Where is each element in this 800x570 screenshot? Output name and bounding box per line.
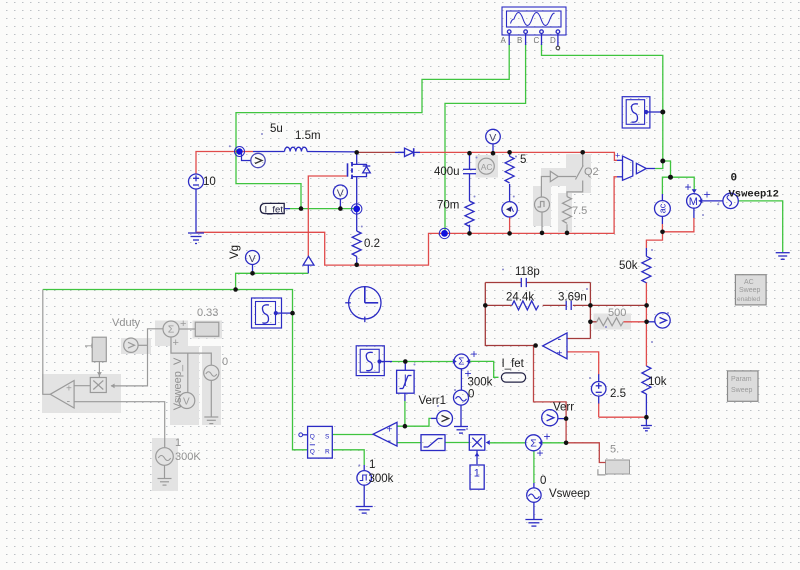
ground 0 source — [454, 427, 468, 434]
svg-text:10: 10 — [203, 176, 216, 188]
gray wire: summer1 bottom to 0 source — [171, 337, 211, 365]
wire: branch node to M multiplier — [671, 177, 695, 190]
gray Vsweep_V voltmeter — [179, 393, 195, 409]
svg-text:-: - — [388, 435, 392, 447]
wire: 50k bottom to 10k top — [645, 283, 647, 367]
svg-text:ac: ac — [657, 203, 667, 213]
wire: summer to X2 multiplier — [490, 442, 525, 444]
capacitor 400u — [463, 169, 476, 173]
gray wire: summer1 right to 0.33 box — [179, 328, 195, 330]
svg-text:3.69n: 3.69n — [558, 292, 587, 304]
wire: 10k bottom to ground — [645, 394, 647, 425]
resistor 24.4k — [512, 301, 539, 310]
disabled-area highlight patch (left analog model) — [42, 321, 222, 492]
svg-text:300k: 300k — [369, 473, 394, 485]
gate driver triangle — [303, 256, 314, 265]
wire: scope C to converter output node — [542, 44, 663, 161]
wire: limiter2 to comparator minus — [397, 442, 421, 444]
gray wire: 1 box to X multiplier — [98, 362, 100, 378]
clock source 1 300k — [357, 471, 372, 486]
svg-text:Verr: Verr — [553, 402, 574, 414]
svg-text:A: A — [501, 36, 507, 45]
svg-text:+: + — [471, 347, 478, 361]
svg-text:AC: AC — [744, 279, 754, 286]
wire: bottom return rail — [196, 177, 617, 265]
svg-text:Q2: Q2 — [584, 166, 599, 178]
gray wire: 300K source to ground — [164, 466, 166, 479]
svg-text:+: + — [615, 151, 620, 161]
resistor 50k — [642, 256, 651, 282]
svg-text:300k: 300k — [468, 377, 493, 389]
wire: gate wire driver to FET gate — [308, 176, 347, 257]
wire: scope3 stub — [278, 312, 293, 314]
wire: top rail source to current probe — [196, 152, 240, 175]
gray wire: triangle minus to 300K source — [74, 402, 165, 448]
disabled-area highlight patch (Q2 switch branch) — [533, 154, 591, 232]
I_fet tag 1 — [260, 203, 290, 215]
wire: Verr probe stub — [558, 418, 566, 420]
AC Sweep enabled box — [735, 275, 766, 305]
gray X multiplier — [90, 372, 114, 392]
wire: S-scope stub to node — [648, 111, 663, 113]
svg-text:Vsweep_V: Vsweep_V — [172, 357, 184, 410]
inductor 5u 1.5m — [285, 147, 308, 151]
wire: Vout voltmeter stem — [492, 144, 494, 153]
resistor 0.2 — [352, 231, 361, 257]
wire: gate drive net from flip-flop Q to driver — [43, 290, 308, 450]
wire: op-amp plus input to 2.5 source — [567, 352, 599, 375]
0 source (summer2) — [454, 390, 469, 405]
wire: compensation mid path 24.4k 3.69n — [485, 304, 512, 306]
converter trapezoid and triangle — [615, 151, 646, 181]
svg-text:V: V — [489, 132, 496, 144]
diode D1 — [398, 148, 420, 156]
svg-text:10k: 10k — [648, 376, 667, 388]
wire: 500 path — [590, 321, 596, 323]
svg-text:+: + — [173, 337, 179, 349]
summer3 — [526, 430, 551, 461]
svg-text:Σ: Σ — [168, 324, 175, 336]
svg-text:118p: 118p — [515, 266, 540, 278]
svg-text:Verr1: Verr1 — [419, 395, 447, 407]
wire: node jog to M branch node — [663, 161, 671, 177]
svg-text:R: R — [325, 448, 330, 455]
svg-text:300K: 300K — [175, 451, 201, 463]
source 2.5 — [591, 382, 606, 397]
gray 300K source — [156, 448, 174, 466]
scope 4-channel top — [502, 7, 566, 35]
resistor 5 — [505, 156, 514, 183]
svg-text:0.2: 0.2 — [364, 238, 380, 250]
gray wire: Q2 driver input — [541, 177, 550, 198]
gray 0 source — [204, 365, 219, 380]
X2 multiplier — [469, 435, 490, 451]
wire: summer2 net — [392, 361, 453, 363]
wire: flip-flop Q open stub — [303, 434, 308, 436]
wire: 400u cap leads — [469, 153, 471, 169]
wire: divider probe stub — [647, 321, 655, 323]
wire: Vds voltmeter stem — [339, 199, 341, 209]
wire: clock source bottom to ground — [363, 485, 365, 506]
wire: comparator output to flip-flop S — [332, 434, 373, 436]
svg-text:0: 0 — [222, 356, 228, 368]
svg-text:-: - — [558, 334, 562, 346]
svg-text:Vg: Vg — [229, 245, 241, 259]
wire: scope terminal stubs — [509, 33, 558, 46]
scope channel labels — [501, 36, 557, 45]
wire: wattmeter bottom stub — [509, 217, 511, 233]
svg-text:1.5m: 1.5m — [295, 130, 321, 142]
wire: 70m resistor bottom lead — [469, 225, 471, 234]
svg-text:0: 0 — [468, 389, 474, 401]
summer2 — [453, 347, 478, 381]
limiter2 — [421, 435, 445, 451]
svg-text:5: 5 — [520, 154, 526, 166]
wire: branch node to ac block — [662, 177, 670, 194]
gray wire: Q2 switch branch — [582, 152, 584, 166]
clock analysis icon — [345, 286, 381, 322]
svg-text:0: 0 — [540, 475, 546, 487]
wire: driver triangle input stub — [307, 265, 309, 273]
wire: inductor to FET drain node — [307, 151, 357, 153]
wire: 5 resistor leads — [509, 152, 511, 156]
I_fet tag 2 — [501, 373, 525, 382]
gray 1 box — [84, 337, 106, 361]
wire: divider top jog to 50k — [646, 232, 662, 248]
svg-text:50k: 50k — [619, 260, 638, 272]
gray 0.33 box — [195, 322, 219, 336]
svg-text:0.33: 0.33 — [197, 307, 218, 319]
wire: scope A to FET source sense node — [236, 44, 509, 209]
gray ground (0 source) — [204, 417, 218, 424]
scope3 — [252, 298, 282, 328]
svg-text:+: + — [537, 446, 544, 460]
FET source node marker — [352, 204, 362, 214]
svg-text:1: 1 — [369, 459, 375, 471]
comparator — [373, 422, 397, 447]
current probe (input current) — [235, 147, 266, 168]
wire: op-amp minus stub — [567, 338, 590, 340]
svg-text:1: 1 — [474, 468, 480, 480]
svg-text:+: + — [180, 318, 186, 330]
gray summer1 — [163, 318, 186, 349]
svg-text:24.4k: 24.4k — [506, 292, 534, 304]
svg-text:I_fet: I_fet — [265, 204, 284, 215]
svg-text:500: 500 — [608, 307, 626, 319]
M multiplier — [685, 180, 711, 208]
svg-text:Vsweep: Vsweep — [549, 488, 590, 500]
capacitor 3.69n — [566, 301, 571, 310]
Param Sweep box — [728, 371, 759, 401]
svg-text:7.5: 7.5 — [572, 205, 587, 217]
svg-text:B: B — [517, 36, 522, 45]
svg-text:Sweep: Sweep — [731, 387, 753, 394]
ac block right — [655, 201, 671, 217]
ground clock — [356, 507, 373, 514]
resistor 500 gray — [597, 318, 624, 326]
svg-text:+: + — [387, 425, 393, 436]
resistor 70m — [465, 201, 474, 226]
wire: Vg voltmeter stem — [252, 265, 254, 274]
svg-text:D: D — [550, 36, 556, 45]
divider probe — [655, 313, 670, 328]
svg-text:Q: Q — [310, 448, 315, 455]
node marker output return — [439, 228, 449, 238]
op-amp error amplifier — [543, 333, 567, 360]
svg-text:AC: AC — [481, 162, 493, 172]
svg-text:C: C — [534, 36, 540, 45]
wire: source 10 bottom stub — [195, 189, 197, 232]
ground (main source) — [188, 233, 204, 244]
svg-text:5u: 5u — [270, 123, 283, 135]
gray wire: Q2 source bottom — [541, 212, 543, 233]
svg-text:0: 0 — [731, 173, 738, 185]
svg-text:+: + — [685, 180, 692, 194]
wire: ac bottom stub — [661, 216, 663, 224]
resistor 10k — [642, 366, 651, 394]
wire: compensation top path 118p — [485, 282, 521, 284]
disabled-area highlight patch (ac source) — [476, 155, 499, 178]
wire: Vsweep source bottom to ground — [533, 502, 535, 519]
svg-text:Vsweep12: Vsweep12 — [729, 189, 779, 201]
limiter1 — [397, 370, 415, 393]
wire: flip-flop R input from clock — [332, 450, 364, 465]
wire: FET drain node to diode — [357, 151, 395, 153]
svg-text:Q: Q — [310, 433, 315, 440]
Vds voltmeter — [333, 185, 347, 199]
svg-text:1: 1 — [84, 343, 95, 349]
1 box constant — [470, 450, 484, 489]
svg-text:enabled: enabled — [737, 296, 761, 303]
svg-text:+: + — [704, 188, 711, 202]
Vsweep source — [527, 488, 541, 502]
wire: scope B to output return node — [445, 44, 526, 233]
Q2 driver triangle gray — [550, 171, 558, 181]
svg-text:V: V — [183, 397, 190, 408]
pin marker dots — [229, 133, 719, 466]
flip-flop SR — [308, 426, 333, 458]
wire: M right input from Vsweep12 — [702, 200, 723, 202]
svg-text:Param: Param — [731, 376, 752, 383]
gray wire: Q2 driver output to switch — [558, 176, 576, 178]
ac source disabled — [478, 158, 494, 174]
svg-text:70m: 70m — [437, 200, 459, 212]
scope2 — [356, 346, 384, 376]
wire: compensation feedback loop left — [485, 283, 535, 346]
wire: limiter1 bottom to comparator plus and Verr1 probe — [404, 393, 406, 401]
scope D open terminal — [556, 46, 560, 50]
wire: X2 to limiter2 — [445, 442, 469, 444]
wire: diode to converter plus input — [416, 152, 618, 160]
svg-text:V: V — [249, 253, 256, 265]
wire: scope2 stub — [382, 361, 393, 363]
Vg voltmeter — [246, 251, 260, 265]
gray ground (300K) — [158, 479, 172, 486]
svg-text:Vduty: Vduty — [112, 317, 141, 329]
wire: FET source to 0.2 resistor and rail — [356, 209, 358, 231]
wire: 0 source bottom to ground — [460, 405, 462, 426]
resistor 7.5 gray — [563, 197, 572, 224]
svg-text:Sweep: Sweep — [739, 287, 761, 294]
svg-text:-: - — [67, 396, 71, 408]
gray Vduty probe — [124, 338, 138, 352]
Vsweep12 source — [723, 193, 738, 208]
wire: limiter1 top to summer2 net — [404, 362, 406, 371]
Verr probe — [542, 410, 558, 426]
svg-text:S: S — [325, 433, 330, 440]
flip-flop Q open terminal — [299, 433, 303, 437]
wire: summer3 bottom to Vsweep source — [533, 451, 535, 483]
wire: op-amp output to Verr node and gray box — [534, 346, 606, 463]
wire: Vsweep12 output to ground — [739, 201, 783, 252]
voltage source 10 — [189, 174, 204, 189]
wire: I_fet net (label to FET source) — [286, 208, 357, 210]
wire: 2.5 source bottom to ground rail — [598, 403, 600, 417]
gray wire: summer1 output loop to X input — [111, 329, 163, 386]
wire: I_fet tag to summer2 right input — [470, 361, 499, 377]
Vout voltmeter — [486, 129, 501, 144]
gray triangle amp — [50, 381, 74, 409]
disabled-area highlight patch (500 resistor) — [594, 314, 632, 330]
ground Vsweep — [525, 520, 542, 527]
gray wire: Vsweep_V probe stem — [187, 353, 189, 392]
svg-text:I_fet: I_fet — [502, 358, 525, 370]
gray wire: Vduty probe stub — [138, 344, 147, 346]
MOSFET Q1 — [348, 152, 371, 209]
S-scope probe top right — [622, 97, 650, 128]
gray wire: 0 source to ground — [210, 381, 212, 417]
wattmeter probe — [502, 202, 517, 217]
disabled gray box 5 (state block) — [598, 444, 630, 475]
wire: converter output to node — [646, 168, 655, 170]
svg-text:+: + — [66, 384, 72, 395]
wire: current probe to inductor — [240, 151, 254, 153]
svg-text:5.: 5. — [610, 444, 619, 456]
ground divider — [641, 426, 652, 431]
Q2 gray pulse source — [535, 197, 550, 212]
wire: gate drive branch to driver triangle — [236, 273, 309, 289]
wire: feedback node vertical — [589, 283, 591, 339]
capacitor 118p — [521, 278, 526, 287]
gray wire: triangle output up to gate net — [43, 290, 50, 395]
ground Vsweep12 — [776, 253, 790, 260]
wire: Verr node to summer plus input — [543, 442, 567, 444]
gray wire: X output to triangle plus — [74, 385, 90, 387]
svg-text:1: 1 — [175, 437, 181, 449]
svg-text:400u: 400u — [434, 166, 460, 178]
svg-text:V: V — [337, 187, 344, 199]
svg-text:+: + — [557, 349, 563, 360]
wire: M bottom to rail corner — [693, 208, 695, 218]
svg-text:2.5: 2.5 — [610, 388, 626, 400]
svg-text:+: + — [544, 430, 551, 444]
svg-text:M: M — [689, 196, 698, 208]
Verr1 probe — [437, 411, 453, 427]
wire: summer2 bottom to 0 source — [460, 369, 462, 391]
